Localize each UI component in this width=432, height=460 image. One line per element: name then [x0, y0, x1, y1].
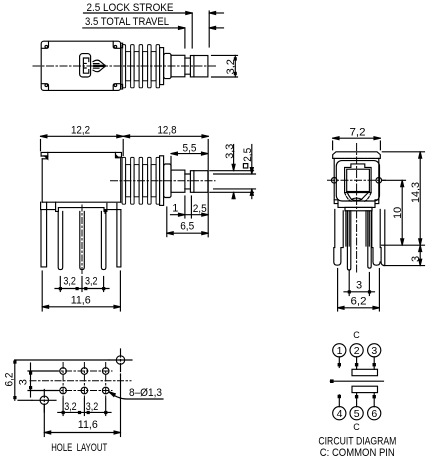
svg-text:3: 3	[18, 379, 30, 385]
dim 14.3 text (rotated)	[410, 182, 422, 203]
svg-text:12,8: 12,8	[158, 124, 177, 136]
svg-text:12,2: 12,2	[71, 124, 90, 136]
top view: plunger neck	[185, 58, 191, 74]
front view: button cap	[190, 171, 208, 193]
hole layout: small hole r1c3	[102, 368, 109, 375]
top view: hex boss	[164, 53, 171, 78]
side view: top cap	[333, 152, 381, 159]
dim 5.5 text	[183, 142, 197, 154]
side view: side pivot circles	[331, 178, 381, 184]
svg-text:6,2: 6,2	[4, 373, 16, 387]
circuit caption line 1	[318, 435, 396, 447]
front view: hex boss	[164, 164, 171, 198]
side view: bottom pedestal	[345, 207, 372, 210]
dim square 2.5 shaft	[214, 145, 256, 199]
dim 6.5 text	[180, 221, 194, 233]
circuit: pin 3 stem with contact dot	[373, 357, 376, 370]
svg-text:11,6: 11,6	[71, 295, 91, 307]
circuit: pin 4 circle	[333, 407, 346, 421]
svg-text:6,2: 6,2	[351, 296, 367, 308]
front view: pin 2	[58, 211, 63, 269]
svg-text:3,3: 3,3	[224, 144, 236, 159]
circuit: pin 4 stem with contact dot	[338, 395, 341, 407]
front view: pin 1 (left support peg)	[41, 210, 47, 267]
svg-text:3,2: 3,2	[86, 401, 99, 413]
dim 3 bottom text	[356, 279, 362, 291]
circuit caption line 2	[320, 447, 395, 459]
circuit: upper contact bar	[352, 369, 378, 375]
svg-text:3: 3	[410, 256, 422, 262]
hole layout: big hole bottom-left	[32, 390, 56, 415]
svg-text:2,5: 2,5	[193, 203, 207, 215]
svg-text:3.5 TOTAL TRAVEL: 3.5 TOTAL TRAVEL	[85, 16, 169, 28]
svg-text:3,2: 3,2	[225, 59, 237, 75]
svg-text:10: 10	[392, 207, 404, 219]
svg-text:3: 3	[371, 345, 377, 357]
top view: corner post bottom-left	[42, 84, 49, 90]
dim 12.2 / 12.8 over front view	[41, 135, 209, 156]
front view: body outline	[41, 152, 121, 202]
hole layout dim 6.2 text (rotated)	[4, 373, 16, 387]
side view: centerline vertical	[356, 144, 358, 274]
svg-text:C: COMMON PIN: C: COMMON PIN	[320, 447, 395, 459]
dim 1 text	[172, 203, 178, 215]
side view: body outline	[334, 158, 379, 207]
top view: corner post top-left	[42, 42, 49, 49]
hole layout: small hole r2c1	[60, 387, 67, 394]
svg-text:C: C	[353, 330, 360, 340]
front view: end collar	[160, 156, 164, 206]
front view: plunger neck	[185, 174, 191, 189]
dim 6.5	[167, 207, 208, 237]
dim 3.2 top view text (rotated)	[225, 59, 237, 75]
front view: axis centerline	[111, 180, 216, 182]
circuit: pin 2 stem with contact dot	[355, 357, 358, 370]
circuit: pin 6 stem with contact dot	[373, 393, 376, 407]
svg-text:5: 5	[354, 408, 360, 420]
hole layout: small hole r2c2	[81, 387, 88, 394]
svg-text:1: 1	[172, 203, 178, 215]
dim 3.3 text (rotated)	[224, 144, 236, 159]
circuit: lower contact bar	[352, 386, 378, 392]
hole layout label 8-dia1.3 text	[129, 387, 162, 399]
svg-text:2,5: 2,5	[242, 148, 254, 162]
side view: thin terminal legs right pair	[366, 211, 371, 268]
side view: right support leg	[372, 210, 385, 266]
top view: right edge tabs	[121, 43, 123, 89]
front view: pin 5 (right support peg)	[105, 203, 121, 267]
dim 10	[382, 180, 406, 245]
circuit: common label C top	[353, 330, 360, 340]
hole layout caption	[51, 442, 107, 454]
side view: plunger castle	[345, 164, 372, 193]
svg-text:6,5: 6,5	[180, 221, 194, 233]
front view: pin 3 centerline	[81, 205, 83, 275]
hole layout dim 3 left	[28, 363, 58, 397]
side view: left support leg	[334, 210, 343, 266]
dim 3 right	[384, 245, 425, 265]
hole layout: small hole r1c2	[81, 368, 88, 375]
circuit: common label C bottom	[353, 422, 360, 432]
circuit: pin 5 circle	[350, 407, 363, 421]
hole layout dim 3 text (rotated)	[18, 379, 30, 385]
dim 11.6 text front	[71, 295, 91, 307]
dim 6.2 side text	[351, 296, 367, 308]
hole layout: small hole r2c3	[102, 387, 109, 394]
top view: button cap	[190, 56, 208, 77]
dim 7.2 text	[350, 126, 366, 138]
side view: thin terminal legs left pair	[346, 211, 351, 270]
hole layout: big hole top-right centerline vertical	[120, 349, 122, 375]
hole layout: row centerlines	[30, 363, 131, 399]
circuit: common wiper line	[330, 379, 384, 383]
svg-text:14,3: 14,3	[410, 182, 422, 203]
svg-text:C: C	[353, 422, 360, 432]
svg-text:3,2: 3,2	[63, 275, 76, 287]
svg-text:11,6: 11,6	[78, 419, 98, 431]
dim 3 right text (rotated)	[410, 256, 422, 262]
svg-text:5,5: 5,5	[183, 142, 197, 154]
dim 6.2 side view	[338, 269, 380, 312]
dim 3 bottom side view	[344, 271, 375, 296]
svg-text:6: 6	[371, 408, 377, 420]
dim square 2.5 text (rotated)	[242, 148, 254, 162]
hole layout dim 3.2 3.2 texts	[64, 401, 98, 413]
svg-text:2: 2	[354, 345, 360, 357]
svg-text:7,2: 7,2	[350, 126, 366, 138]
top view: latch pin cone	[93, 60, 106, 72]
hole layout dim 11.6	[44, 375, 120, 437]
front view: bellows spring	[122, 157, 160, 204]
top view: inner latch bracket	[80, 54, 91, 77]
dim 2.5 text	[193, 203, 207, 215]
top view: switch body outline	[41, 41, 120, 90]
top view: corner post top-right	[113, 42, 120, 49]
svg-text:1: 1	[337, 345, 343, 357]
svg-text:3,2: 3,2	[64, 401, 77, 413]
dim 3.2 3.2 texts front	[63, 275, 97, 287]
hole layout dim 6.2 left	[13, 360, 109, 400]
hole layout: big hole top-right	[109, 356, 132, 364]
dim 3.5 total travel: leader line and arrow	[83, 11, 224, 48]
top view: corner post bottom-right	[113, 84, 120, 90]
hole layout dim 3.2 3.2	[58, 399, 111, 416]
circuit: pin 2 circle	[350, 344, 363, 358]
dim 11.6 front	[42, 271, 120, 311]
front view: pin 4	[101, 211, 106, 269]
front view: bottom pedestals	[41, 202, 121, 211]
circuit: pin 6 circle	[368, 407, 381, 421]
dim 3.2 top view cap height	[212, 55, 238, 77]
top view: plunger box	[171, 55, 185, 77]
circuit: pin 1 circle	[333, 344, 346, 358]
top view: bellows spring	[122, 45, 160, 88]
side view: centerline horizontal	[328, 179, 386, 181]
circuit: pin 5 stem with contact dot	[355, 393, 358, 407]
side view: bottom dome cone	[345, 192, 372, 202]
side view: recess rounded square	[336, 161, 379, 201]
circuit: pin 1 stem with contact dot	[338, 357, 341, 368]
dim 7.2	[333, 137, 381, 150]
front view: pin 3 (center)	[80, 211, 85, 269]
svg-text:CIRCUIT DIAGRAM: CIRCUIT DIAGRAM	[318, 435, 396, 447]
hole layout label 8-dia1.3 with leader	[109, 392, 163, 399]
dim 12.8 text	[158, 124, 177, 136]
dim 14.3	[382, 152, 425, 245]
dim 12.2 text	[71, 124, 90, 136]
dim 2.5 lock stroke: text	[87, 2, 174, 14]
dim 10 text (rotated)	[392, 207, 404, 219]
top view: end collar	[160, 48, 164, 85]
dim 3.3 cap height	[210, 145, 254, 199]
dim 5.5	[171, 140, 208, 237]
svg-text:3,2: 3,2	[85, 275, 98, 287]
dim 1 and 2.5 below plunger	[171, 196, 209, 218]
circuit: pin 3 circle	[368, 344, 381, 358]
hole layout dim 11.6 text	[78, 419, 98, 431]
svg-text:4: 4	[337, 408, 343, 420]
dim 2.5 lock stroke: leader line and arrow	[84, 12, 224, 49]
top view: centerline	[33, 65, 218, 67]
hole layout: small hole r1c1	[60, 368, 67, 375]
dim 3.5 total travel: text	[85, 16, 169, 28]
dim 3.2 3.2 pin pitch front	[55, 277, 109, 292]
front view: plunger box	[171, 170, 185, 192]
svg-text:2.5 LOCK STROKE: 2.5 LOCK STROKE	[87, 2, 174, 14]
svg-text:3: 3	[356, 279, 362, 291]
svg-text:HOLE LAYOUT: HOLE LAYOUT	[51, 442, 107, 454]
svg-text:8–Ø1,3: 8–Ø1,3	[129, 387, 162, 399]
